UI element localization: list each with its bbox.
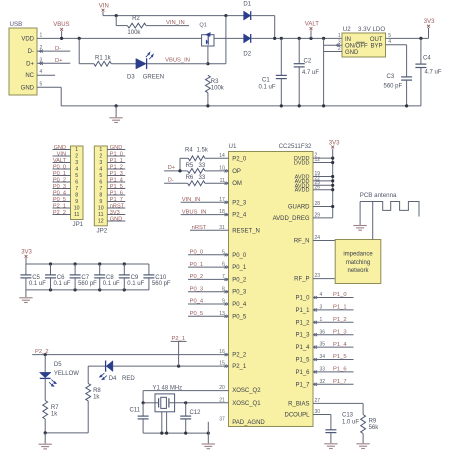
svg-text:P1_6: P1_6 (333, 367, 347, 373)
svg-text:P1_5: P1_5 (333, 354, 347, 360)
svg-text:VIN_IN: VIN_IN (182, 197, 201, 203)
svg-text:P2_1: P2_1 (232, 364, 247, 370)
svg-text:560 pF: 560 pF (384, 84, 403, 90)
svg-text:C13: C13 (342, 413, 354, 419)
svg-text:6: 6 (99, 180, 102, 186)
svg-text:RF_N: RF_N (294, 239, 310, 245)
svg-text:20: 20 (219, 385, 225, 391)
svg-text:P1_0: P1_0 (110, 151, 123, 157)
capacitor C3 (384, 45, 413, 106)
svg-text:PAD_AGND: PAD_AGND (232, 420, 265, 426)
LED D4 red (88, 361, 135, 382)
svg-text:P0_1: P0_1 (232, 265, 247, 271)
svg-text:7: 7 (75, 186, 78, 192)
svg-text:P1_1: P1_1 (110, 158, 123, 164)
capacitor C4 (415, 38, 441, 106)
resistor R9 (313, 403, 379, 443)
svg-text:37: 37 (219, 416, 225, 422)
ground rail top (37, 87, 421, 107)
svg-text:P0_3: P0_3 (232, 290, 247, 296)
svg-text:D3: D3 (127, 75, 135, 81)
capacitor C11 (130, 403, 149, 433)
ground symbol main (109, 106, 122, 123)
svg-text:GND: GND (54, 145, 66, 151)
svg-text:12: 12 (98, 219, 104, 225)
svg-text:ON/OFF: ON/OFF (345, 44, 368, 50)
svg-text:560 pF: 560 pF (78, 281, 97, 287)
svg-text:GND: GND (345, 50, 359, 56)
resistor R7 (43, 378, 59, 433)
svg-text:P0_5: P0_5 (190, 311, 204, 317)
svg-text:P1_7: P1_7 (333, 379, 347, 385)
resistor R5 series D+ (186, 163, 229, 173)
svg-text:P0_1: P0_1 (190, 262, 204, 268)
svg-text:RF_P: RF_P (294, 277, 309, 283)
svg-text:P0_1: P0_1 (53, 171, 66, 177)
svg-text:Q1: Q1 (199, 23, 206, 29)
svg-text:11: 11 (98, 212, 103, 218)
svg-text:matching: matching (346, 260, 370, 266)
svg-text:P0_2: P0_2 (53, 177, 66, 183)
svg-text:P0_4: P0_4 (190, 299, 204, 305)
svg-text:10: 10 (98, 206, 104, 212)
svg-text:0.1 uF: 0.1 uF (54, 281, 71, 287)
svg-text:CC2511F32: CC2511F32 (279, 143, 312, 150)
net P1_5 (313, 354, 354, 360)
resistor R1 (79, 38, 111, 66)
svg-text:56k: 56k (369, 425, 380, 431)
svg-text:0.1 uF: 0.1 uF (29, 281, 46, 287)
svg-text:P1_4: P1_4 (295, 345, 310, 351)
svg-text:AVDD: AVDD (295, 188, 310, 194)
LED ground rail (44, 431, 89, 434)
net nRST (190, 225, 229, 231)
svg-text:VBUS: VBUS (53, 22, 69, 28)
svg-text:D+: D+ (55, 58, 63, 64)
capacitor C7 (70, 264, 98, 290)
svg-text:R8: R8 (93, 388, 101, 394)
net P2_1 wire (113, 336, 229, 368)
svg-text:0.1 uF: 0.1 uF (103, 281, 120, 287)
svg-text:RESET_N: RESET_N (232, 228, 260, 234)
resistor R2 (116, 16, 146, 36)
ground symbol antenna (353, 202, 366, 231)
svg-text:8: 8 (75, 193, 78, 199)
svg-text:5: 5 (99, 173, 102, 179)
svg-text:JP1: JP1 (73, 221, 84, 228)
svg-text:R4: R4 (185, 148, 193, 154)
svg-text:GND: GND (21, 85, 35, 91)
3V3 supply rail right (313, 140, 340, 218)
wire U2 enable and ground (324, 38, 342, 106)
svg-text:XOSC_Q2: XOSC_Q2 (232, 388, 261, 394)
svg-text:1k: 1k (51, 412, 58, 418)
svg-text:nRST: nRST (192, 225, 207, 231)
svg-text:7: 7 (99, 186, 102, 192)
svg-text:5: 5 (40, 81, 43, 87)
svg-text:P2_3: P2_3 (232, 200, 247, 206)
svg-text:P0_2: P0_2 (190, 274, 204, 280)
capacitor C6 (45, 264, 71, 290)
svg-text:4: 4 (75, 167, 78, 173)
ground symbol crystal (202, 433, 215, 449)
svg-text:impedance: impedance (343, 252, 373, 258)
svg-text:R6: R6 (186, 175, 194, 181)
JP2 pin nets GND P1_0-P1_7 nRST 3V3 GND (107, 145, 125, 223)
svg-text:10: 10 (74, 206, 80, 212)
svg-text:YELLOW: YELLOW (54, 371, 79, 377)
svg-text:3V3: 3V3 (110, 210, 120, 216)
svg-text:P1_2: P1_2 (295, 320, 310, 326)
impedance matching network (313, 240, 381, 284)
capacitor C10 (143, 264, 171, 290)
svg-text:RED: RED (122, 376, 135, 382)
net P0_0 (188, 250, 229, 256)
svg-text:1k: 1k (93, 395, 100, 401)
LED D5 yellow (40, 355, 80, 387)
svg-text:VALT: VALT (305, 22, 319, 28)
resistor R4 pull-up (180, 148, 229, 171)
net D+ wire (164, 165, 188, 172)
net P1_2 (313, 317, 354, 323)
svg-text:3: 3 (75, 160, 78, 166)
svg-text:R5: R5 (186, 163, 194, 169)
svg-text:VIN_IN: VIN_IN (166, 20, 185, 26)
svg-text:5: 5 (388, 33, 391, 39)
svg-text:3V3: 3V3 (21, 250, 32, 256)
svg-text:8: 8 (99, 193, 102, 199)
crystal ground rail (143, 432, 210, 435)
svg-text:P2_2: P2_2 (53, 210, 66, 216)
net P2_2 wire (32, 349, 228, 356)
svg-text:AVDD_DREG: AVDD_DREG (273, 216, 310, 222)
svg-text:11: 11 (74, 212, 79, 218)
svg-text:P2_4: P2_4 (232, 213, 247, 219)
svg-text:GREEN: GREEN (143, 75, 164, 81)
svg-text:0.1 uF: 0.1 uF (259, 84, 276, 90)
net VBUS_IN wire (147, 57, 208, 63)
capacitor C2 (294, 38, 320, 106)
svg-text:VBUS_IN: VBUS_IN (182, 209, 207, 215)
svg-text:P1_4: P1_4 (110, 177, 123, 183)
svg-text:D-: D- (28, 49, 34, 55)
svg-text:P1_5: P1_5 (295, 358, 310, 364)
svg-text:4.7 uF: 4.7 uF (302, 70, 319, 76)
svg-text:BYP: BYP (370, 44, 382, 50)
svg-text:P1_6: P1_6 (295, 370, 310, 376)
svg-text:P1_7: P1_7 (110, 197, 123, 203)
svg-text:P0_4: P0_4 (232, 302, 247, 308)
net P0_3 (188, 286, 229, 292)
LED D3 green (111, 52, 164, 80)
svg-text:P1_5: P1_5 (110, 184, 123, 190)
net P1_4 (313, 342, 354, 348)
svg-text:DCOUPL: DCOUPL (284, 413, 310, 419)
net D- wire (164, 178, 188, 184)
svg-text:VIN: VIN (99, 3, 109, 9)
net P1_3 (313, 329, 354, 335)
svg-text:P0_3: P0_3 (190, 286, 204, 292)
ground symbol C13 (324, 444, 337, 449)
svg-text:4.7 uF: 4.7 uF (425, 69, 442, 75)
net VBUS_IN to P2_4 (181, 209, 229, 215)
net P0_5 (188, 311, 229, 317)
JP1 pin nets GND VIN VALT P0_0-P0_5 P2_1 P2_2 (53, 145, 71, 216)
svg-text:3V3: 3V3 (424, 19, 435, 25)
svg-text:OP: OP (232, 169, 241, 175)
svg-text:0.1 uF: 0.1 uF (127, 281, 144, 287)
capacitor C5 (20, 264, 46, 290)
svg-text:P1_1: P1_1 (295, 308, 310, 314)
svg-text:P0_0: P0_0 (232, 253, 247, 259)
svg-text:P0_0: P0_0 (53, 164, 66, 170)
wire VBUS net (37, 37, 244, 40)
connector JP1 (71, 146, 84, 228)
svg-text:R9: R9 (369, 419, 377, 425)
svg-text:nRST: nRST (110, 203, 125, 209)
net P1_7 (313, 379, 354, 385)
ground symbol LEDs (39, 433, 52, 449)
svg-text:C2: C2 (304, 59, 312, 65)
svg-text:XOSC_Q1: XOSC_Q1 (232, 401, 261, 407)
svg-text:C1: C1 (262, 77, 270, 83)
svg-text:P2_0: P2_0 (232, 156, 247, 162)
svg-text:P1_7: P1_7 (295, 382, 310, 388)
svg-text:U1: U1 (229, 143, 237, 150)
net VIN_IN to P2_3 (181, 197, 229, 203)
wire VALT net (251, 37, 342, 40)
svg-text:D1: D1 (243, 2, 251, 8)
svg-text:560 pF: 560 pF (152, 281, 171, 287)
svg-text:D5: D5 (54, 362, 62, 368)
svg-text:5: 5 (75, 173, 78, 179)
supply VIN (99, 3, 109, 15)
net P1_0 (313, 292, 354, 298)
3V3 decoupling rails (26, 262, 149, 291)
svg-text:P1_0: P1_0 (295, 296, 310, 302)
svg-text:IN: IN (345, 37, 351, 43)
transistor Q1 (199, 23, 214, 47)
svg-text:GUARD: GUARD (288, 205, 310, 211)
svg-text:R_BIAS: R_BIAS (288, 401, 309, 407)
net P1_6 (313, 367, 354, 373)
svg-text:C4: C4 (423, 56, 431, 62)
svg-text:C6: C6 (57, 275, 65, 281)
svg-text:1: 1 (338, 33, 341, 39)
svg-text:GND: GND (110, 145, 122, 151)
svg-text:C3: C3 (387, 74, 395, 80)
net P0_1 (188, 262, 229, 268)
svg-text:P0_4: P0_4 (53, 190, 66, 196)
svg-text:C9: C9 (131, 275, 139, 281)
svg-text:P1_3: P1_3 (295, 333, 310, 339)
svg-text:P1_3: P1_3 (110, 171, 123, 177)
svg-text:OM: OM (232, 181, 242, 187)
svg-text:VBUS_IN: VBUS_IN (165, 57, 190, 63)
svg-text:1: 1 (75, 147, 78, 153)
svg-text:3.3V LDO: 3.3V LDO (358, 26, 385, 33)
svg-text:2: 2 (75, 154, 78, 160)
svg-text:D-: D- (168, 178, 174, 184)
svg-text:P2_1: P2_1 (53, 203, 66, 209)
svg-text:P0_0: P0_0 (190, 250, 204, 256)
capacitor C9 (119, 264, 145, 290)
svg-text:P2_2: P2_2 (35, 349, 49, 355)
supply VALT (305, 22, 319, 39)
connector JP2 (94, 146, 107, 235)
svg-text:P0_3: P0_3 (53, 184, 66, 190)
svg-text:R1 1k: R1 1k (95, 55, 112, 61)
capacitor C12 (180, 403, 201, 433)
svg-text:33: 33 (199, 163, 206, 169)
svg-text:4: 4 (99, 167, 102, 173)
svg-text:OUT: OUT (370, 37, 383, 43)
svg-text:P1_2: P1_2 (333, 317, 347, 323)
svg-text:C12: C12 (190, 410, 202, 416)
svg-text:1.5k: 1.5k (197, 148, 209, 154)
crystal Y1 48 MHz (142, 386, 229, 434)
regulator U2 3.3V LDO (336, 26, 391, 57)
node VIN_IN (R2 side) (146, 20, 189, 26)
wire 3V3 from U2 OUT (386, 37, 429, 40)
svg-text:P0_5: P0_5 (232, 314, 247, 320)
svg-text:C7: C7 (81, 275, 89, 281)
resistor R8 (86, 366, 102, 433)
svg-text:R7: R7 (51, 405, 59, 411)
svg-text:1.0 uF: 1.0 uF (342, 419, 359, 425)
supply 3V3 top right (424, 19, 435, 38)
svg-text:1: 1 (40, 32, 43, 38)
svg-text:P1_4: P1_4 (333, 342, 347, 348)
svg-text:DVDD: DVDD (294, 161, 310, 167)
svg-text:PCB antenna: PCB antenna (360, 192, 397, 199)
svg-text:R3: R3 (211, 79, 219, 85)
svg-text:P1_3: P1_3 (333, 329, 347, 335)
svg-text:C8: C8 (106, 275, 114, 281)
capacitor C13 (313, 413, 359, 444)
svg-text:D2: D2 (243, 51, 251, 57)
svg-text:VALT: VALT (53, 158, 67, 164)
svg-text:D4: D4 (109, 376, 117, 382)
svg-text:D-: D- (55, 46, 61, 52)
wire VIN net (103, 14, 244, 17)
supply VBUS (53, 22, 69, 38)
wire PAD_AGND (207, 422, 209, 433)
svg-text:3V3: 3V3 (329, 140, 340, 146)
net P1_1 (313, 305, 354, 311)
USB data pins D- D+ nets (37, 46, 70, 75)
PCB antenna (360, 192, 419, 239)
svg-text:C11: C11 (130, 408, 141, 414)
svg-text:P2_1: P2_1 (172, 336, 186, 342)
wire VBUS_IN node (Q1 drain, gate tie) (206, 16, 226, 66)
svg-text:P1_1: P1_1 (333, 305, 347, 311)
svg-text:D+: D+ (26, 61, 34, 67)
svg-text:P2_2: P2_2 (232, 353, 247, 359)
resistor R3 (206, 75, 225, 106)
svg-text:1: 1 (99, 147, 102, 153)
svg-text:GND: GND (110, 216, 122, 222)
svg-text:C10: C10 (155, 275, 167, 281)
svg-text:P1_2: P1_2 (110, 164, 123, 170)
svg-text:4: 4 (40, 69, 43, 75)
ground symbol R9 (356, 444, 369, 449)
svg-text:100k: 100k (211, 86, 225, 92)
supply 3V3 left (21, 250, 32, 264)
svg-text:100k: 100k (127, 30, 141, 36)
svg-text:9: 9 (75, 199, 78, 205)
diode D2 (243, 34, 251, 57)
svg-text:9: 9 (99, 199, 102, 205)
svg-text:2: 2 (99, 154, 102, 160)
net P0_4 (188, 299, 229, 305)
svg-text:R2: R2 (132, 16, 140, 22)
svg-text:P0_2: P0_2 (232, 277, 247, 283)
svg-text:33: 33 (199, 175, 206, 181)
svg-text:USB: USB (10, 21, 23, 28)
USB connector (9, 21, 43, 95)
svg-text:P1_6: P1_6 (110, 190, 123, 196)
svg-text:VIN: VIN (57, 151, 66, 157)
ground symbol 3V3 bank (19, 290, 32, 303)
svg-text:6: 6 (75, 180, 78, 186)
svg-text:3: 3 (99, 160, 102, 166)
resistor R6 series D- (186, 175, 229, 185)
capacitor C1 (259, 38, 287, 106)
IC U1 CC2511F32 (219, 143, 325, 426)
capacitor C8 (94, 264, 120, 290)
svg-text:JP2: JP2 (97, 228, 108, 235)
diode D1 (243, 2, 274, 39)
svg-text:D+: D+ (168, 165, 176, 171)
svg-text:P1_0: P1_0 (333, 292, 347, 298)
svg-text:VDD: VDD (21, 36, 34, 42)
svg-text:network: network (347, 268, 369, 274)
svg-text:NC: NC (25, 73, 34, 79)
svg-text:P0_5: P0_5 (53, 197, 66, 203)
svg-text:U2: U2 (343, 26, 351, 33)
svg-text:C5: C5 (32, 275, 40, 281)
net P0_2 (188, 274, 229, 280)
